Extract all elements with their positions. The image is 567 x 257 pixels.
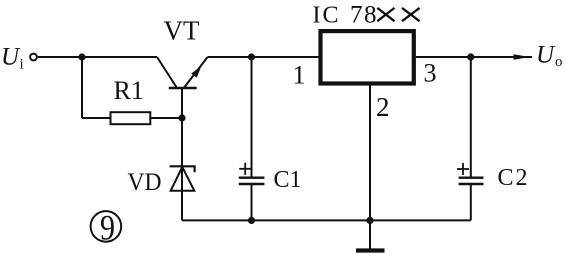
svg-text:C1: C1 xyxy=(274,167,302,193)
svg-text:1: 1 xyxy=(293,61,306,90)
svg-text:i: i xyxy=(20,57,24,73)
svg-text:9: 9 xyxy=(100,208,115,248)
svg-text:U: U xyxy=(1,44,21,71)
svg-text:3: 3 xyxy=(424,59,437,88)
svg-text:o: o xyxy=(555,54,563,70)
svg-text:2: 2 xyxy=(376,92,390,122)
svg-text:R1: R1 xyxy=(114,76,144,105)
svg-text:C2: C2 xyxy=(498,165,530,191)
svg-text:U: U xyxy=(536,42,556,69)
svg-text:78: 78 xyxy=(350,2,378,29)
svg-text:VT: VT xyxy=(164,16,200,46)
svg-text:VD: VD xyxy=(128,169,162,196)
svg-text:IC: IC xyxy=(313,3,341,29)
